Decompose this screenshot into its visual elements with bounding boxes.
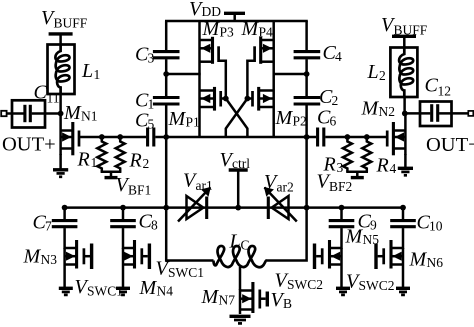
svg-text:4: 4 (335, 49, 342, 64)
node cross-couple right dot (245, 96, 251, 102)
transistor MN6 (376, 240, 403, 289)
svg-text:C: C (34, 82, 48, 104)
wire node A to MP3 drain (166, 73, 201, 76)
terminal VBUFF left (49, 34, 73, 45)
label C9 (358, 211, 378, 233)
svg-text:B: B (283, 296, 292, 311)
transistor MN2 (367, 113, 406, 155)
svg-text:ar2: ar2 (277, 180, 294, 195)
terminal OUT- pad (468, 111, 473, 116)
wire node A to C1 (165, 74, 168, 96)
node right output at varactor rail (304, 205, 310, 211)
label R1 (77, 149, 98, 171)
resistor R3 (343, 137, 352, 172)
transistor MP4 (247, 21, 273, 137)
svg-text:7: 7 (45, 219, 52, 234)
svg-text:L: L (229, 231, 241, 253)
inductor L1 box (48, 45, 75, 95)
label C4 (323, 42, 343, 64)
capacitor C11 (13, 105, 61, 122)
svg-text:BUFF: BUFF (394, 23, 428, 38)
capacitor C3 (153, 52, 180, 58)
transistor MP1 (200, 87, 226, 111)
wire R3 to R4 top (347, 136, 366, 139)
node MN1 drain dot (58, 111, 64, 117)
svg-text:P3: P3 (220, 25, 235, 40)
supply VDD terminal (224, 13, 245, 21)
svg-text:N7: N7 (219, 293, 236, 308)
ground MN6 (396, 288, 410, 295)
terminal Vctrl (229, 170, 248, 208)
node left output at varactor rail (163, 205, 169, 211)
label VDD (189, 0, 221, 20)
svg-text:OUT+: OUT+ (2, 134, 56, 156)
inductor L2 coil (399, 48, 413, 97)
node A dot (163, 71, 169, 77)
node right output at tank rail (304, 134, 310, 140)
terminal VBF1 bar (105, 176, 118, 179)
wire Lc center tap to MN7 (239, 267, 242, 290)
wire L2 to MN2 drain node (403, 96, 406, 114)
inductor L1 coil (55, 45, 69, 94)
svg-text:M: M (23, 246, 42, 268)
capacitor C7 (52, 208, 78, 227)
label VBUFF left (41, 7, 88, 31)
label R4 (376, 155, 397, 177)
svg-text:SWC1: SWC1 (168, 265, 204, 280)
wire node B to C2 (305, 74, 308, 96)
svg-text:3: 3 (337, 160, 344, 175)
ground MN2 (398, 168, 413, 175)
svg-text:M: M (361, 98, 380, 120)
svg-text:10: 10 (429, 219, 443, 234)
inductor Lc (214, 246, 267, 267)
wire C9 to MN5 (340, 228, 343, 249)
wire R3 R4 bottom join (346, 172, 368, 176)
wire C2 down right output column (305, 105, 308, 208)
label L1 (81, 60, 100, 82)
label R3 (323, 154, 344, 176)
label Var2 (264, 171, 294, 195)
label VBF2 (317, 171, 353, 195)
node left output at tank rail (163, 134, 169, 140)
varactor Var1 (178, 187, 211, 222)
capacitor C2 (294, 98, 321, 105)
resistor R4 (362, 137, 371, 172)
svg-text:ar1: ar1 (196, 178, 213, 193)
svg-text:OUT−: OUT− (426, 134, 474, 156)
svg-text:6: 6 (330, 114, 337, 129)
capacitor C9 (329, 208, 355, 227)
svg-text:M: M (202, 18, 221, 40)
svg-text:C: C (241, 238, 250, 253)
terminal OUT+ pad (1, 111, 6, 116)
svg-text:M: M (139, 277, 158, 299)
svg-text:P2: P2 (293, 114, 307, 129)
svg-text:L: L (367, 61, 379, 83)
resistor R1 (97, 137, 106, 172)
svg-text:11: 11 (47, 91, 60, 106)
capacitor C8 (110, 208, 136, 227)
label C5 (135, 110, 155, 132)
label VSWC1 for MN4 (156, 258, 205, 281)
svg-text:R: R (129, 150, 142, 172)
svg-text:N2: N2 (379, 104, 396, 119)
wire R1 to R2 top (102, 136, 120, 139)
wire node B to MP4 drain (273, 73, 307, 76)
ground MN3 (59, 288, 73, 295)
label VSWC2 for MN6 (346, 271, 395, 294)
svg-text:R: R (77, 149, 90, 171)
label MP3 (202, 18, 235, 40)
label C12 (425, 75, 452, 99)
svg-text:ctrl: ctrl (232, 156, 250, 171)
wire pad to C11 (7, 112, 13, 115)
capacitor C6 (307, 128, 348, 147)
label MN5 (345, 226, 380, 248)
label MN4 (139, 277, 174, 299)
wire R2 to C5 (120, 136, 146, 139)
svg-text:P4: P4 (259, 25, 274, 40)
capacitor C10 (390, 208, 416, 227)
node C7 top dot (62, 205, 68, 211)
svg-text:SWC2: SWC2 (287, 277, 323, 292)
svg-text:12: 12 (438, 84, 452, 99)
svg-text:BUFF: BUFF (54, 16, 88, 31)
wire right drop to C4 (305, 21, 308, 50)
transistor MP2 (247, 87, 273, 111)
label MN6 (409, 249, 444, 271)
svg-text:2: 2 (332, 93, 339, 108)
wire left output down to Lc (166, 208, 213, 261)
label VSWC2 for MN5 (275, 270, 324, 293)
svg-text:M: M (168, 108, 187, 130)
label MP2 (275, 107, 307, 129)
terminal VBF2 bar (351, 176, 364, 179)
wire tank rail (165, 136, 307, 139)
svg-text:R: R (376, 155, 389, 177)
transistor MN1 (61, 114, 102, 156)
wire right output down to Lc (267, 208, 307, 261)
label C2 (319, 86, 338, 108)
svg-text:1: 1 (91, 155, 98, 170)
wire C8 to MN4 (122, 228, 125, 249)
label VBUFF right (381, 14, 428, 38)
svg-text:SWC1: SWC1 (87, 284, 123, 299)
node R4 top dot (364, 134, 370, 140)
label MN3 (23, 246, 58, 268)
svg-text:8: 8 (151, 218, 158, 233)
label MP1 (168, 108, 200, 130)
label C8 (139, 211, 159, 233)
inductor L2 box (390, 48, 417, 98)
svg-text:M: M (275, 107, 294, 129)
svg-text:N3: N3 (41, 252, 58, 267)
label VB (271, 289, 293, 311)
node C8 top dot (120, 205, 126, 211)
wire varactor rail (63, 206, 404, 209)
svg-text:M: M (241, 18, 260, 40)
svg-text:2: 2 (143, 156, 150, 171)
capacitor C5 (148, 128, 167, 147)
node B dot (304, 71, 310, 77)
wire C1 down left output column (165, 105, 168, 208)
svg-text:M: M (63, 102, 82, 124)
svg-text:3: 3 (148, 51, 155, 66)
label Var1 (183, 170, 213, 194)
wire L1 to MN1 drain node (59, 93, 62, 114)
ground MN7 (230, 316, 251, 323)
transistor MN4 (123, 240, 149, 289)
transistor MP3 (200, 21, 226, 137)
svg-text:DD: DD (202, 4, 222, 19)
ground MN1 (53, 170, 68, 177)
transistor MN5 (315, 240, 342, 289)
wire R1 R2 bottom join (101, 172, 122, 176)
transistor MN7 (240, 282, 267, 314)
label Vctrl (220, 149, 251, 171)
label C6 (317, 107, 337, 129)
svg-text:2: 2 (379, 68, 386, 83)
label R2 (129, 150, 150, 172)
svg-text:N1: N1 (81, 109, 98, 124)
wire C4 to node B (305, 59, 308, 75)
svg-text:SWC2: SWC2 (359, 278, 395, 293)
svg-text:1: 1 (148, 97, 155, 112)
capacitor C12 box (420, 102, 452, 127)
svg-text:BF2: BF2 (329, 179, 352, 194)
svg-text:1: 1 (94, 67, 101, 82)
node Vctrl dot (235, 205, 241, 211)
node R1 top dot (99, 134, 105, 140)
varactor Var2 (264, 187, 297, 222)
svg-text:N4: N4 (157, 284, 174, 299)
capacitor C1 (153, 98, 180, 105)
terminal VBUFF right (392, 36, 416, 48)
svg-text:L: L (81, 60, 93, 82)
svg-text:9: 9 (370, 218, 377, 233)
wire left drop to C3 (165, 21, 168, 50)
label C1 (135, 90, 154, 112)
svg-text:C: C (425, 75, 439, 97)
capacitor C12 (405, 104, 469, 122)
node C10 top dot (400, 205, 406, 211)
label C7 (33, 212, 53, 234)
wire cross-coupling X (226, 99, 248, 137)
node C9 top dot (339, 205, 345, 211)
label C11 (34, 82, 60, 106)
wire top rail (165, 20, 308, 23)
label VSWC1 for MN3 (75, 276, 124, 299)
label VBF1 (116, 174, 152, 198)
resistor R2 (116, 137, 125, 172)
svg-text:5: 5 (148, 117, 155, 132)
label C3 (135, 44, 155, 66)
wire MN1 source to ground (59, 154, 62, 170)
svg-text:N6: N6 (427, 255, 444, 270)
svg-text:M: M (345, 226, 364, 248)
svg-text:P1: P1 (186, 115, 200, 130)
node cross-couple left dot (223, 96, 229, 102)
label C10 (417, 212, 443, 234)
transistor MN3 (65, 240, 92, 289)
label MN7 (201, 286, 236, 308)
ground MN4 (116, 288, 130, 295)
node R3 top dot (345, 134, 351, 140)
node MN2 drain dot (402, 111, 408, 117)
capacitor C4 (294, 52, 321, 58)
wire MN2 source to ground (404, 154, 407, 168)
svg-text:M: M (201, 286, 220, 308)
wire C10 to MN6 (402, 228, 405, 249)
label MP4 (241, 18, 274, 40)
label MN1 (63, 102, 98, 124)
wire C7 to MN3 (63, 228, 66, 249)
label Lc (229, 231, 250, 253)
svg-text:M: M (409, 249, 428, 271)
label L2 (367, 61, 386, 83)
capacitor C11 box (12, 100, 45, 127)
svg-text:4: 4 (390, 161, 397, 176)
svg-text:BF1: BF1 (128, 183, 151, 198)
node R2 top dot (117, 134, 123, 140)
label MN2 (361, 98, 396, 120)
ground MN5 (336, 288, 350, 295)
wire C3 to node A (165, 59, 168, 75)
